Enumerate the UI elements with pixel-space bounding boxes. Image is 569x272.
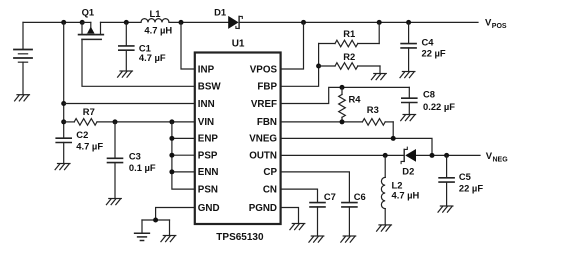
wire FBN pin (281, 121, 363, 123)
wire Q1 gate to BSW (82, 39, 195, 86)
node VIN tap (61, 119, 66, 124)
svg-text:R2: R2 (343, 51, 355, 62)
ground (L2) (377, 225, 392, 231)
svg-text:C6: C6 (354, 191, 366, 202)
node C5 tap (444, 153, 449, 158)
ground (earth, GND left) (135, 233, 150, 240)
svg-text:C8: C8 (423, 89, 435, 100)
node R3 drop (391, 136, 396, 141)
svg-text:L1: L1 (150, 8, 161, 19)
svg-text:4.7 µH: 4.7 µH (144, 25, 172, 36)
svg-text:D1: D1 (214, 7, 226, 18)
wire OUTN pin / VNEG rail (281, 154, 404, 156)
capacitor C1 (119, 22, 134, 70)
diode D2 (401, 147, 416, 163)
svg-text:GND: GND (198, 203, 220, 214)
svg-text:VREF: VREF (251, 99, 277, 110)
wire VPOS pin (281, 22, 304, 69)
svg-text:22 µF: 22 µF (422, 47, 446, 58)
svg-text:C7: C7 (324, 191, 336, 202)
svg-text:C3: C3 (129, 151, 141, 162)
svg-text:4.7 µH: 4.7 µH (392, 190, 420, 201)
node C3 tap (113, 119, 118, 124)
resistor R2 (319, 63, 380, 74)
svg-text:D2: D2 (402, 165, 414, 176)
node INP tap (179, 20, 184, 25)
capacitor C2 (56, 138, 71, 163)
node battery/INN tap (61, 20, 66, 25)
node VPOS pin riser (301, 20, 306, 25)
wire top rail left (23, 21, 82, 23)
ground (PGND) (290, 224, 305, 230)
svg-text:BSW: BSW (198, 82, 222, 93)
battery V1 (14, 22, 32, 94)
wire CP pin to C6 (281, 172, 350, 202)
wire vertical INN/VIN feed (63, 22, 65, 138)
node R1 riser (377, 20, 382, 25)
svg-text:R1: R1 (343, 28, 355, 39)
inductor L2 (381, 155, 385, 224)
capacitor C5 (439, 155, 454, 205)
svg-text:U1: U1 (232, 39, 245, 50)
wire INN to IC (64, 103, 195, 105)
wire GND pin (156, 208, 195, 221)
diode D1 (228, 16, 242, 29)
svg-text:NEG: NEG (493, 157, 509, 164)
node R4 bottom / R3 left (340, 119, 345, 124)
svg-text:FBP: FBP (257, 82, 277, 93)
svg-text:22 µF: 22 µF (459, 183, 483, 194)
node INN tap (61, 101, 66, 106)
resistor R1 (319, 22, 380, 46)
wire INP feed (181, 22, 195, 69)
wire VREF pin (281, 87, 410, 103)
svg-text:VPOS: VPOS (250, 64, 278, 75)
svg-text:INP: INP (198, 64, 215, 75)
node VNEG drop (430, 153, 435, 158)
capacitor C3 (108, 122, 123, 198)
svg-text:VNEG: VNEG (249, 134, 277, 145)
op-amp U1 IC box (195, 53, 281, 225)
svg-text:CN: CN (263, 184, 277, 195)
ground (C7) (309, 236, 324, 242)
svg-text:TPS65130: TPS65130 (216, 232, 264, 243)
ground (C5) (438, 206, 453, 212)
wire FBP pin riser (281, 44, 319, 87)
svg-text:INN: INN (198, 99, 215, 110)
wire L1 to D1 (169, 21, 228, 23)
resistor R7 (64, 119, 195, 126)
svg-text:R7: R7 (83, 106, 95, 117)
wire enable riser ENP/PSP/ENN/PSN (172, 122, 195, 189)
node R4 top (340, 85, 345, 90)
svg-text:PSN: PSN (198, 184, 218, 195)
svg-text:FBN: FBN (257, 117, 277, 128)
ground (C2) (55, 164, 70, 170)
svg-text:4.7 µF: 4.7 µF (139, 52, 166, 63)
ground (C3) (106, 199, 121, 205)
svg-text:C2: C2 (76, 129, 88, 140)
transistor Q1 (79, 20, 104, 40)
node enable riser (169, 119, 174, 124)
ground (R2) (371, 74, 386, 80)
ground (C1) (118, 71, 133, 77)
capacitor C6 (342, 203, 357, 236)
wire Q1 drain to C1 node (101, 21, 142, 23)
node C4 tap (406, 20, 411, 25)
ground (C6) (341, 236, 356, 242)
node R2 tap (316, 64, 321, 69)
svg-text:0.22 µF: 0.22 µF (423, 101, 455, 112)
svg-text:VIN: VIN (198, 117, 214, 128)
svg-text:ENN: ENN (198, 167, 219, 178)
wire PGND pin (281, 208, 299, 224)
svg-text:CP: CP (263, 167, 277, 178)
node L2 tap (383, 153, 388, 158)
capacitor C7 (310, 203, 325, 236)
svg-text:4.7 µF: 4.7 µF (76, 141, 103, 152)
svg-text:PSP: PSP (198, 151, 218, 162)
capacitor C8 (402, 87, 417, 114)
svg-text:R3: R3 (367, 104, 379, 115)
resistor R3 (362, 119, 393, 139)
ground (C4) (400, 72, 415, 78)
node C1/L1 (124, 20, 129, 25)
inductor L1 (141, 19, 169, 23)
wire D1 to VPOS rail (240, 21, 478, 23)
svg-text:C5: C5 (459, 171, 471, 182)
svg-text:OUTN: OUTN (249, 151, 277, 162)
resistor R4 (339, 87, 346, 122)
ground (battery) (15, 95, 30, 101)
svg-text:PGND: PGND (249, 203, 277, 214)
ground (GND right) (161, 236, 176, 242)
svg-text:0.1 µF: 0.1 µF (129, 162, 156, 173)
svg-text:POS: POS (492, 23, 507, 30)
svg-text:R4: R4 (349, 94, 362, 105)
wire VNEG pin (281, 138, 432, 155)
wire CN pin to C7 (281, 189, 318, 202)
svg-text:C4: C4 (422, 36, 435, 47)
ground (C8) (401, 115, 416, 121)
svg-text:ENP: ENP (198, 134, 219, 145)
svg-text:Q1: Q1 (82, 7, 95, 18)
capacitor C4 (401, 22, 416, 71)
